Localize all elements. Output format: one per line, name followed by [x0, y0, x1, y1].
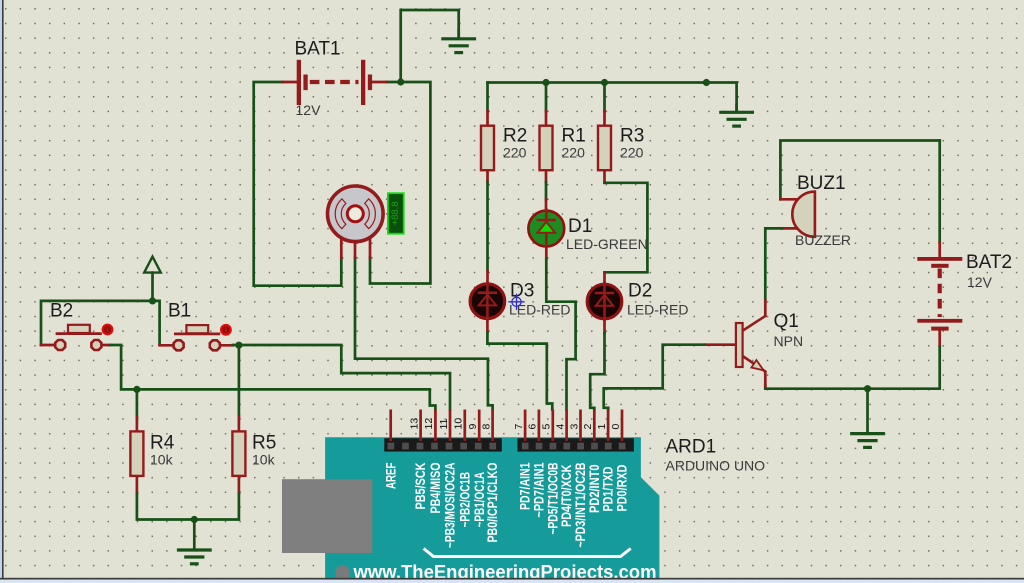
label NPN [774, 333, 804, 349]
wire [603, 111, 606, 126]
svg-text:12V: 12V [296, 102, 322, 118]
wire [603, 83, 606, 112]
svg-text:1: 1 [596, 424, 608, 430]
ground [852, 389, 884, 448]
node R1 top [542, 79, 549, 86]
svg-text:9: 9 [467, 424, 479, 430]
cursor origin marker [509, 294, 524, 309]
svg-text:B1: B1 [168, 301, 191, 322]
wire [603, 319, 606, 334]
svg-text:BAT1: BAT1 [295, 39, 341, 60]
wire [370, 82, 430, 284]
svg-text:4: 4 [554, 424, 566, 430]
wire [486, 111, 489, 126]
node R4-R5 ground [191, 516, 198, 523]
svg-text:10k: 10k [252, 452, 276, 468]
svg-text:B2: B2 [50, 301, 73, 322]
label Q1 [774, 311, 799, 332]
wire [218, 344, 233, 347]
label ARDUINO UNO [666, 458, 766, 474]
battery BAT2 [917, 257, 962, 331]
label B2 [50, 301, 73, 322]
label 10k [252, 452, 276, 468]
svg-text:AREF: AREF [382, 462, 398, 489]
wire [254, 82, 342, 286]
ground [443, 30, 475, 53]
svg-text:R1: R1 [562, 126, 586, 147]
wire [486, 319, 489, 333]
label 10k [150, 452, 174, 468]
svg-text:+88.8: +88.8 [390, 201, 401, 225]
svg-text:LED-GREEN: LED-GREEN [566, 236, 648, 252]
svg-text:PD0/RXD: PD0/RXD [614, 465, 630, 512]
wire [137, 494, 194, 520]
node R4 top [133, 386, 140, 393]
LED D2 [587, 283, 622, 321]
label R3 [620, 126, 644, 147]
motor [328, 186, 384, 242]
wire [401, 10, 459, 82]
wire [486, 83, 489, 112]
label LED-RED [627, 302, 688, 318]
node emitter ground [864, 385, 871, 392]
pin stubs [391, 410, 622, 442]
label BUZ1 [797, 173, 846, 194]
node B1-R5 [235, 342, 242, 349]
resistor R3 [598, 126, 611, 171]
button B1 [174, 324, 232, 350]
svg-text:BAT2: BAT2 [966, 252, 1012, 273]
wire [705, 343, 736, 346]
svg-text:6: 6 [527, 424, 539, 430]
wire [765, 228, 781, 300]
wire [764, 373, 767, 386]
label R5 [252, 433, 276, 454]
wire [41, 344, 55, 347]
board bracket [424, 549, 631, 557]
svg-text:R5: R5 [252, 433, 276, 454]
svg-text:PB4/MISO: PB4/MISO [427, 462, 443, 513]
svg-text:8: 8 [480, 424, 492, 430]
resistor R4 [130, 431, 143, 476]
wire [764, 300, 767, 316]
label LED-GREEN [566, 236, 648, 252]
wire [486, 170, 489, 182]
svg-text:220: 220 [503, 145, 527, 161]
svg-text:LED-RED: LED-RED [509, 302, 570, 318]
resistor R5 [232, 431, 245, 476]
wire [136, 417, 139, 432]
label D3 [510, 281, 534, 302]
wire [604, 345, 705, 410]
buzzer BUZ1 [792, 192, 815, 237]
svg-text:R3: R3 [620, 126, 644, 147]
label 220 [503, 145, 527, 161]
motor display [388, 193, 404, 234]
wire [238, 345, 241, 416]
svg-text:BUZZER: BUZZER [795, 232, 851, 248]
wire [603, 272, 606, 284]
label 220 [562, 145, 586, 161]
svg-text:R2: R2 [503, 126, 527, 147]
svg-text:0: 0 [610, 424, 622, 430]
svg-text:R4: R4 [150, 433, 175, 454]
wire [488, 83, 737, 112]
wire [41, 301, 160, 345]
svg-text:D1: D1 [568, 216, 592, 237]
wire [765, 347, 939, 389]
label 12V [967, 274, 993, 290]
label R2 [503, 126, 527, 147]
pin header right [518, 438, 634, 451]
svg-text:PB5/SCK: PB5/SCK [412, 463, 428, 510]
svg-text:7: 7 [513, 424, 525, 430]
logo head [335, 565, 349, 583]
wire [194, 494, 239, 520]
node R3 top [601, 79, 608, 86]
wire [545, 170, 548, 182]
svg-text:PB0/ICP1/CLKO: PB0/ICP1/CLKO [484, 462, 500, 542]
svg-text:220: 220 [562, 145, 586, 161]
node supply rail [703, 79, 710, 86]
wire [136, 476, 139, 494]
label 220 [620, 145, 644, 161]
label R4 [150, 433, 175, 454]
svg-text:13: 13 [408, 418, 420, 430]
svg-text:Q1: Q1 [774, 311, 799, 332]
svg-text:ARD1: ARD1 [666, 437, 717, 458]
label LED-RED [509, 302, 570, 318]
battery BAT1 [283, 60, 387, 105]
pin numbers [408, 418, 621, 430]
label 12V [296, 102, 322, 118]
LED D1 [528, 210, 564, 248]
power arrow [144, 257, 161, 301]
resistor R2 [481, 126, 494, 171]
svg-text:ARDUINO UNO: ARDUINO UNO [666, 458, 766, 474]
svg-text:2: 2 [582, 424, 594, 430]
label BAT1 [295, 39, 341, 60]
button B2 [55, 324, 113, 350]
wire [487, 333, 552, 410]
wire [238, 476, 241, 494]
wire [355, 258, 493, 410]
svg-text:~PB3/MOSI/OC2A: ~PB3/MOSI/OC2A [442, 463, 458, 549]
wire [545, 83, 548, 112]
wire [136, 389, 139, 417]
wire [545, 111, 548, 126]
wire [545, 200, 548, 212]
wire [938, 141, 941, 243]
node power arrow junction [149, 297, 156, 304]
svg-text:220: 220 [620, 145, 644, 161]
label B1 [168, 301, 191, 322]
svg-text:3: 3 [568, 424, 580, 430]
wire [938, 331, 941, 347]
svg-text:LED-RED: LED-RED [627, 302, 688, 318]
wire [238, 416, 241, 432]
pin header left [384, 438, 502, 451]
label D1 [568, 216, 592, 237]
LED D3 [470, 282, 505, 320]
svg-text:NPN: NPN [774, 333, 804, 349]
Arduino USB connector [282, 479, 372, 553]
wire [546, 259, 575, 409]
ground [721, 105, 753, 126]
label R1 [562, 126, 586, 147]
svg-text:11: 11 [438, 418, 450, 429]
wire [780, 198, 798, 201]
svg-text:12: 12 [423, 418, 435, 430]
wire [605, 183, 648, 272]
wire [486, 182, 489, 272]
wire [590, 333, 604, 409]
svg-text:12V: 12V [967, 274, 993, 290]
motor legs [341, 214, 370, 258]
wire [233, 345, 450, 410]
Arduino board ARD1 body [325, 437, 659, 583]
svg-text:D2: D2 [628, 281, 652, 302]
svg-text:10: 10 [453, 418, 465, 430]
label BUZZER [795, 232, 851, 248]
resistor R1 [540, 126, 553, 171]
label ARD1 [666, 437, 717, 458]
svg-text:10k: 10k [150, 452, 174, 468]
wire [603, 170, 606, 183]
wire [780, 141, 939, 200]
logo text [353, 562, 657, 583]
wire [486, 272, 489, 285]
wire [782, 227, 798, 230]
pin labels [382, 462, 629, 548]
wire [102, 344, 111, 347]
label BAT2 [966, 252, 1012, 273]
node BAT1 positive [397, 78, 404, 85]
svg-text:5: 5 [541, 424, 553, 430]
label D2 [628, 281, 652, 302]
transistor Q1 [736, 316, 765, 372]
svg-text:BUZ1: BUZ1 [797, 173, 846, 194]
wire [545, 182, 548, 200]
wire [545, 246, 548, 259]
ground [179, 520, 211, 564]
wire [110, 345, 435, 410]
wire [160, 344, 174, 345]
wire [938, 242, 941, 257]
